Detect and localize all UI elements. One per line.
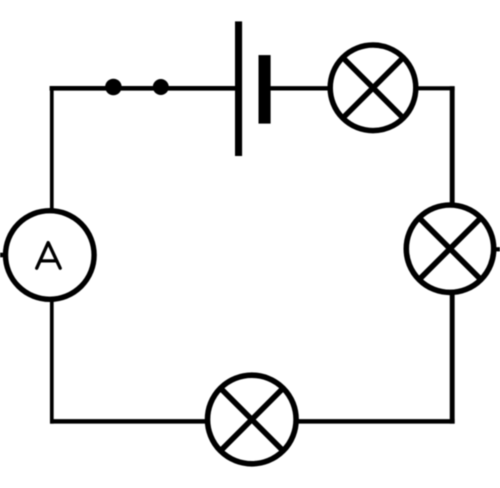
wire bottom rail (50, 419, 455, 424)
wire right rail upper (450, 86, 455, 207)
ammeter A1 circle (6, 211, 95, 300)
ammeter A1 label A (37, 243, 61, 269)
lamp L2 circle (406, 205, 493, 292)
switch S1 closed contact dot 1 (105, 79, 122, 96)
wire left rail (50, 86, 54, 424)
lamp L2 right stub (495, 247, 500, 251)
lamp L1 cross (342, 57, 404, 119)
lamp L3 cross (220, 387, 284, 451)
battery B1 short plate (negative) (259, 55, 271, 124)
switch S1 closed contact dot 2 (153, 79, 169, 95)
lamp L1 circle (330, 45, 416, 131)
wire right rail lower (450, 291, 455, 424)
battery B1 long plate (positive) (235, 21, 242, 156)
lamp L3 circle (208, 375, 297, 464)
wire lamp L1 to top-right corner (414, 86, 455, 90)
wire top rail left segment (50, 86, 237, 91)
wire battery to lamp L1 (264, 86, 332, 90)
lamp L2 cross (418, 217, 481, 280)
ammeter A1 left stub (0, 253, 4, 258)
